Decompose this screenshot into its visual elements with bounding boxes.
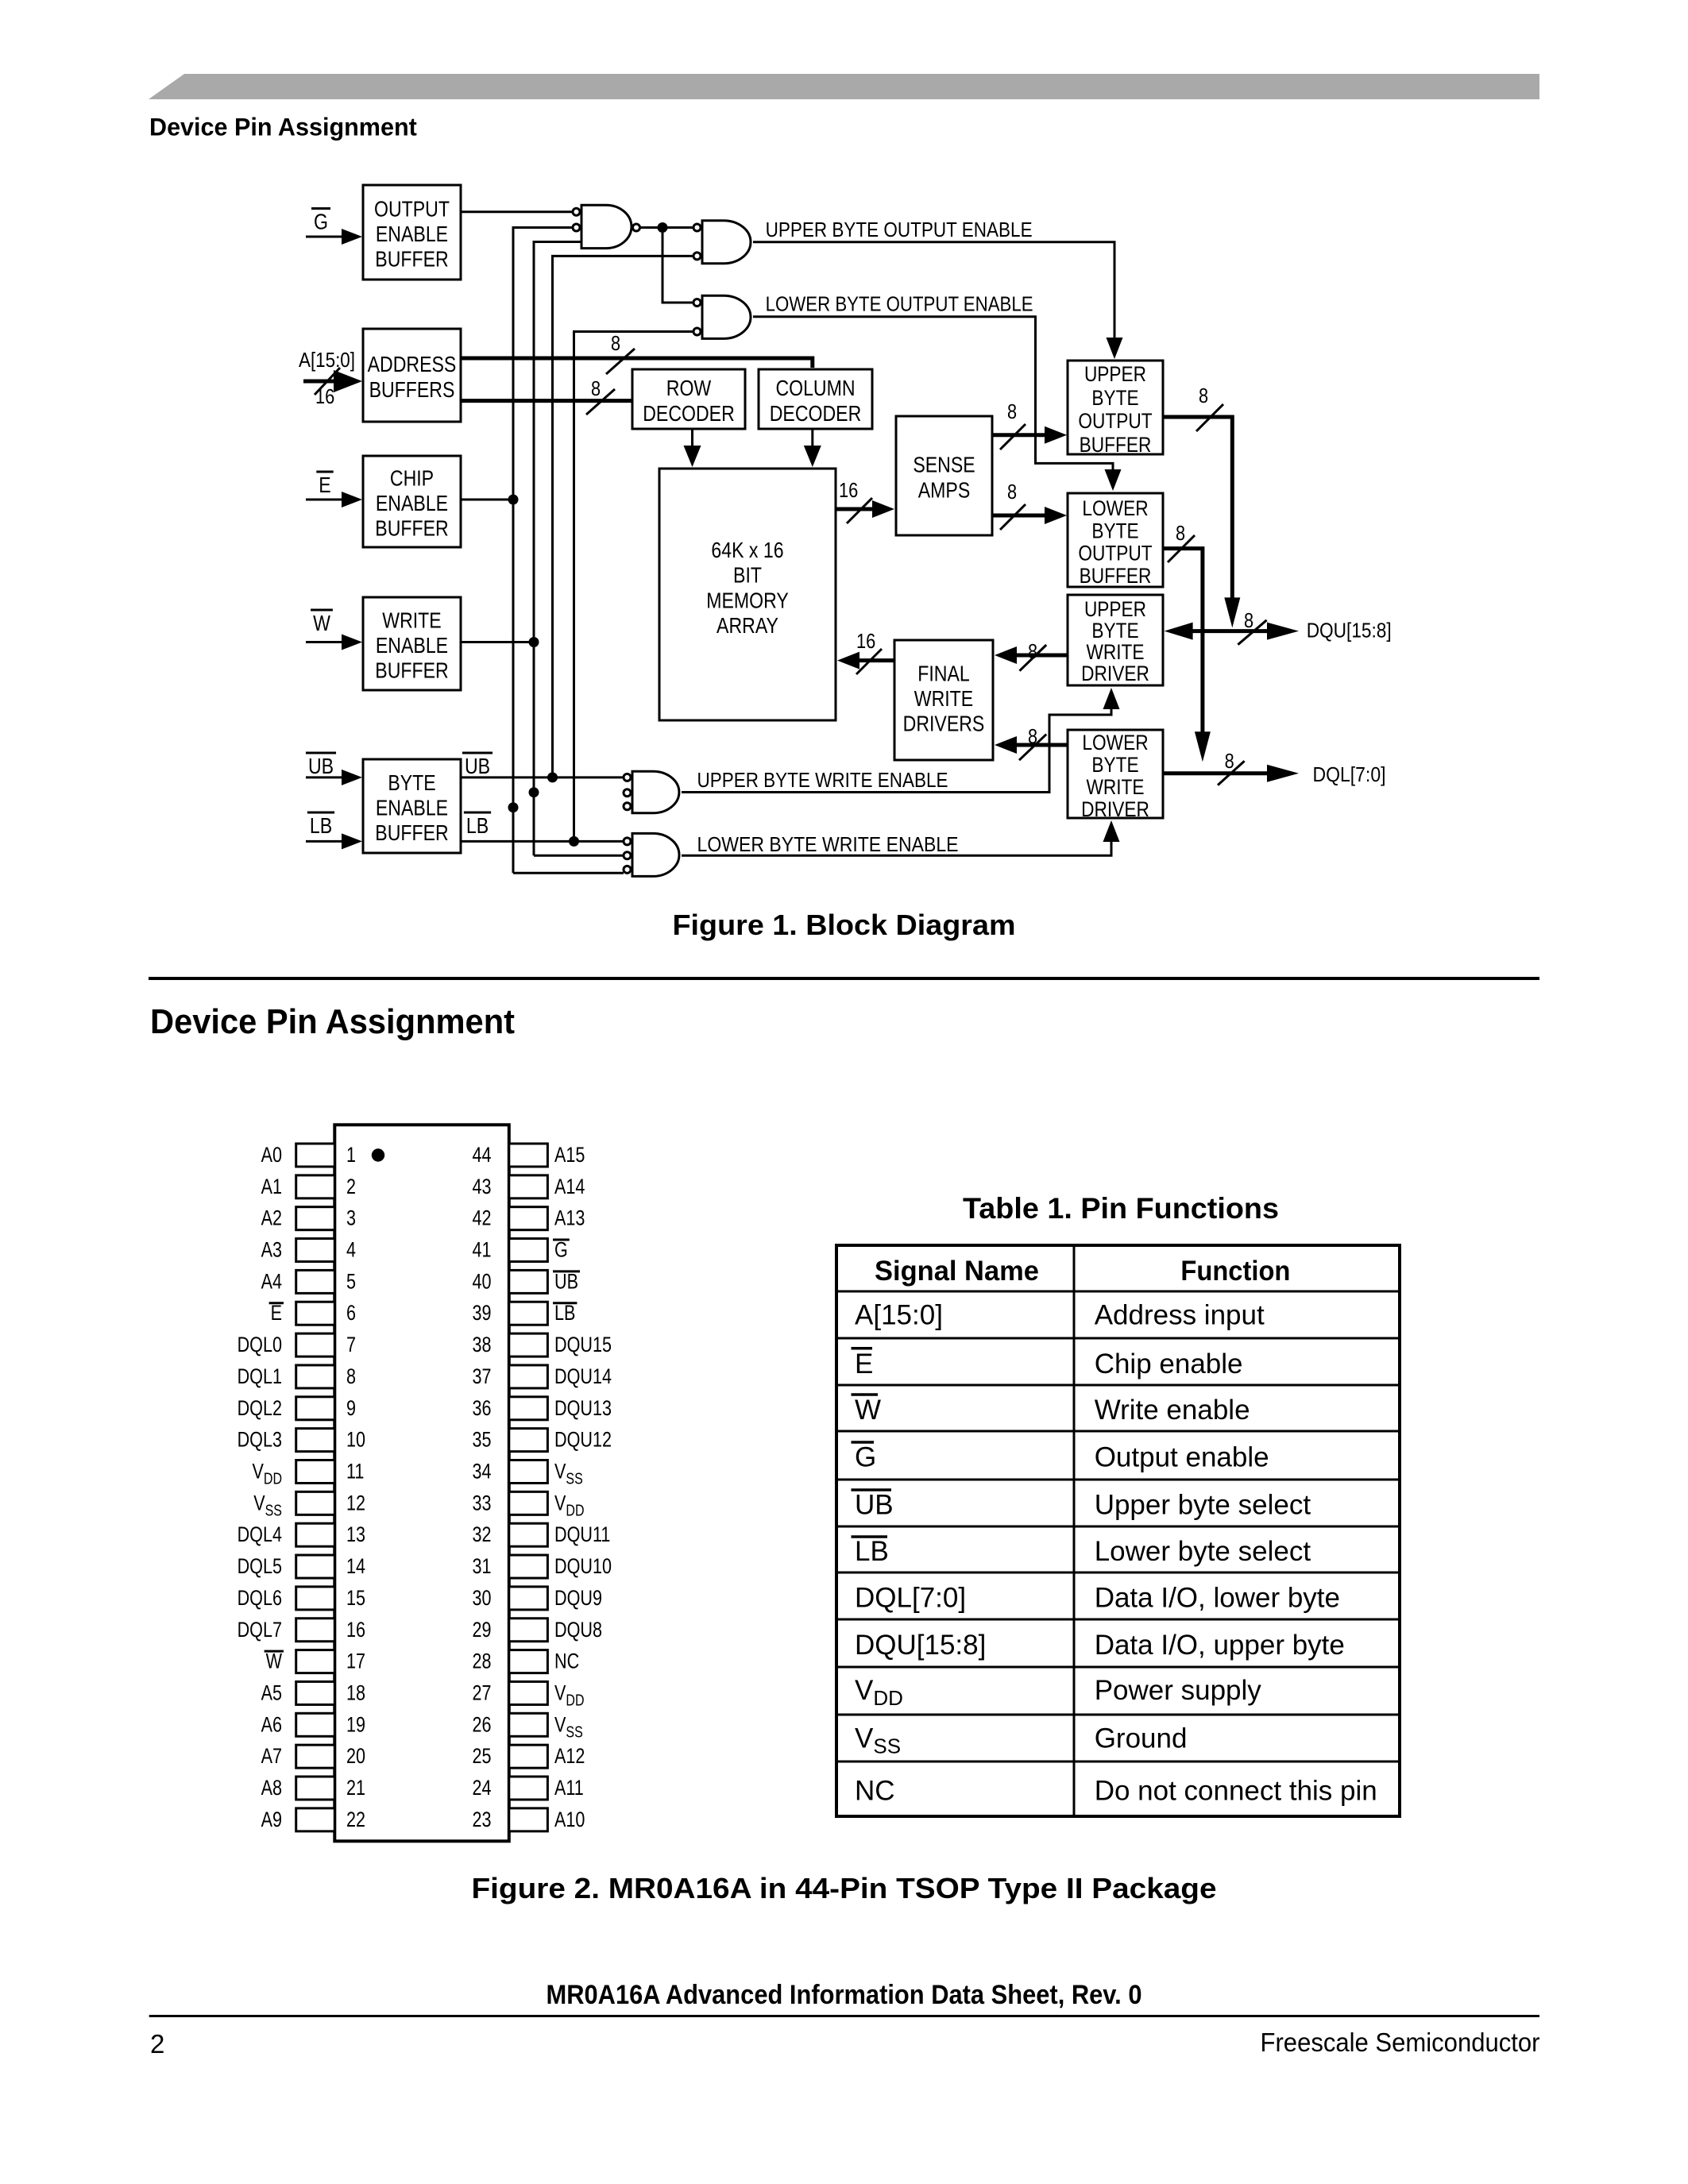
svg-text:A1: A1 [261,1175,282,1198]
svg-text:UB: UB [465,754,490,778]
svg-text:41: 41 [473,1238,492,1262]
svg-text:E: E [319,473,330,497]
svg-text:DQL6: DQL6 [238,1586,282,1610]
svg-text:DQL0: DQL0 [238,1333,282,1356]
svg-text:A5: A5 [261,1680,282,1704]
svg-text:A14: A14 [554,1175,585,1198]
svg-text:DQU11: DQU11 [554,1522,610,1546]
svg-text:Power supply: Power supply [1095,1675,1262,1706]
svg-text:Figure 2. MR0A16A in 44-Pin TS: Figure 2. MR0A16A in 44-Pin TSOP Type II… [472,1872,1217,1904]
svg-text:G: G [314,210,328,234]
svg-text:8: 8 [1244,608,1253,632]
svg-text:2: 2 [150,2029,164,2059]
svg-text:MEMORY: MEMORY [706,588,789,612]
svg-text:35: 35 [473,1428,492,1452]
svg-text:E: E [855,1349,873,1379]
svg-text:8: 8 [1007,480,1017,504]
svg-text:Device Pin Assignment: Device Pin Assignment [150,1002,515,1041]
svg-text:A6: A6 [261,1712,282,1736]
svg-text:40: 40 [473,1269,492,1293]
svg-text:Do not connect this pin: Do not connect this pin [1095,1776,1377,1807]
svg-text:BYTE: BYTE [1091,386,1138,410]
svg-text:BYTE: BYTE [388,770,435,795]
svg-text:G: G [554,1238,568,1262]
svg-text:W: W [855,1395,881,1426]
svg-text:WRITE: WRITE [914,686,973,711]
svg-text:A13: A13 [554,1206,585,1230]
svg-text:A0: A0 [261,1143,282,1167]
svg-text:8: 8 [1028,724,1037,748]
svg-text:LB: LB [310,813,332,838]
svg-text:W: W [313,611,330,635]
svg-text:ROW: ROW [666,376,712,400]
svg-text:BYTE: BYTE [1091,619,1138,642]
svg-text:13: 13 [346,1522,365,1546]
svg-text:A4: A4 [261,1269,282,1293]
svg-text:BYTE: BYTE [1091,753,1138,777]
svg-text:30: 30 [473,1586,492,1610]
svg-text:Ground: Ground [1095,1723,1188,1754]
svg-text:22: 22 [346,1808,365,1831]
svg-text:UPPER BYTE WRITE ENABLE: UPPER BYTE WRITE ENABLE [697,770,948,792]
svg-text:10: 10 [346,1428,365,1452]
svg-text:8: 8 [1199,384,1208,407]
svg-text:27: 27 [473,1680,492,1704]
svg-text:LB: LB [466,813,489,838]
svg-text:34: 34 [473,1460,492,1484]
svg-text:3: 3 [346,1206,356,1230]
svg-text:DQU[15:8]: DQU[15:8] [1307,619,1392,642]
svg-text:20: 20 [346,1744,365,1768]
svg-text:DQU14: DQU14 [554,1364,612,1388]
svg-text:16: 16 [346,1618,365,1642]
svg-text:Figure 1. Block Diagram: Figure 1. Block Diagram [673,909,1016,941]
svg-text:BIT: BIT [733,563,762,588]
svg-text:DRIVER: DRIVER [1081,662,1149,685]
svg-text:Table 1. Pin Functions: Table 1. Pin Functions [963,1191,1279,1225]
svg-text:E: E [271,1301,282,1325]
svg-text:WRITE: WRITE [1086,640,1144,664]
svg-text:24: 24 [473,1776,492,1800]
svg-text:Device Pin Assignment: Device Pin Assignment [149,113,417,141]
svg-text:Output enable: Output enable [1095,1442,1269,1473]
svg-text:CHIP: CHIP [390,465,434,490]
svg-text:14: 14 [346,1554,365,1578]
svg-text:16: 16 [856,629,875,653]
svg-text:WRITE: WRITE [1086,775,1144,799]
svg-text:ENABLE: ENABLE [376,796,448,820]
svg-text:17: 17 [346,1650,365,1673]
svg-text:12: 12 [346,1491,365,1515]
svg-text:DRIVER: DRIVER [1081,797,1149,821]
svg-text:A8: A8 [261,1776,282,1800]
svg-text:21: 21 [346,1776,365,1800]
svg-text:Data I/O, upper byte: Data I/O, upper byte [1095,1630,1345,1661]
svg-text:A15: A15 [554,1143,585,1167]
svg-text:A10: A10 [554,1808,585,1831]
svg-text:DECODER: DECODER [770,401,862,426]
svg-text:LOWER: LOWER [1082,496,1148,520]
svg-text:W: W [266,1650,283,1673]
svg-text:A[15:0]: A[15:0] [855,1300,943,1331]
svg-text:UPPER BYTE OUTPUT ENABLE: UPPER BYTE OUTPUT ENABLE [766,219,1033,241]
svg-text:2: 2 [346,1175,356,1198]
svg-text:DECODER: DECODER [643,401,735,426]
svg-text:8: 8 [1225,749,1234,773]
svg-text:A12: A12 [554,1744,585,1768]
svg-text:32: 32 [473,1522,492,1546]
svg-text:A11: A11 [554,1776,584,1800]
svg-text:DQU[15:8]: DQU[15:8] [855,1630,986,1661]
svg-text:ENABLE: ENABLE [376,222,448,246]
svg-text:8: 8 [591,376,601,400]
svg-text:LOWER BYTE OUTPUT ENABLE: LOWER BYTE OUTPUT ENABLE [766,294,1033,316]
svg-text:Address input: Address input [1095,1300,1265,1331]
svg-text:Write enable: Write enable [1095,1395,1250,1426]
svg-text:BUFFERS: BUFFERS [369,377,455,402]
svg-text:43: 43 [473,1175,492,1198]
svg-text:BUFFER: BUFFER [375,658,448,683]
svg-text:33: 33 [473,1491,492,1515]
svg-text:UPPER: UPPER [1084,597,1146,621]
svg-text:8: 8 [611,331,620,355]
svg-text:DQL[7:0]: DQL[7:0] [1313,762,1386,786]
svg-text:OUTPUT: OUTPUT [374,196,450,221]
svg-text:A7: A7 [261,1744,282,1768]
svg-text:SENSE: SENSE [913,453,975,477]
svg-text:DQU12: DQU12 [554,1428,612,1452]
svg-text:DRIVERS: DRIVERS [903,712,985,736]
svg-text:BUFFER: BUFFER [1080,564,1152,588]
svg-text:BUFFER: BUFFER [375,247,448,272]
svg-text:A[15:0]: A[15:0] [299,348,355,372]
svg-text:7: 7 [346,1333,356,1356]
svg-text:Lower byte select: Lower byte select [1095,1536,1311,1567]
svg-text:16: 16 [315,384,334,408]
svg-text:23: 23 [473,1808,492,1831]
svg-text:ENABLE: ENABLE [376,491,448,515]
svg-text:A9: A9 [261,1808,282,1831]
svg-text:26: 26 [473,1712,492,1736]
svg-text:8: 8 [1007,399,1017,423]
svg-text:39: 39 [473,1301,492,1325]
svg-text:42: 42 [473,1206,492,1230]
svg-text:G: G [855,1442,876,1473]
svg-text:OUTPUT: OUTPUT [1078,542,1152,565]
svg-text:DQL7: DQL7 [238,1618,282,1642]
svg-text:28: 28 [473,1650,492,1673]
svg-text:8: 8 [346,1364,356,1388]
svg-text:19: 19 [346,1712,365,1736]
svg-text:Freescale Semiconductor: Freescale Semiconductor [1261,2028,1540,2057]
svg-text:Function: Function [1180,1256,1290,1287]
svg-text:Data I/O, lower byte: Data I/O, lower byte [1095,1583,1340,1614]
svg-text:36: 36 [473,1396,492,1420]
svg-text:UB: UB [308,754,334,778]
svg-text:BUFFER: BUFFER [375,516,448,541]
svg-text:BYTE: BYTE [1091,519,1138,542]
svg-text:AMPS: AMPS [918,477,971,502]
svg-text:ENABLE: ENABLE [376,633,448,658]
svg-text:BUFFER: BUFFER [1080,433,1152,457]
svg-text:64K x 16: 64K x 16 [711,538,783,562]
svg-text:1: 1 [346,1143,356,1167]
svg-text:UPPER: UPPER [1084,362,1146,386]
svg-text:8: 8 [1028,639,1037,663]
svg-text:UB: UB [855,1490,894,1521]
svg-text:DQL[7:0]: DQL[7:0] [855,1583,966,1614]
svg-text:UB: UB [554,1269,578,1293]
svg-text:COLUMN: COLUMN [775,376,855,400]
svg-text:BUFFER: BUFFER [375,820,448,845]
svg-text:ARRAY: ARRAY [717,613,778,638]
svg-text:DQL3: DQL3 [238,1428,282,1452]
svg-text:DQL4: DQL4 [238,1522,282,1546]
svg-text:LOWER BYTE WRITE ENABLE: LOWER BYTE WRITE ENABLE [697,834,959,856]
svg-text:LB: LB [554,1301,575,1325]
svg-text:16: 16 [839,478,858,502]
svg-text:DQU9: DQU9 [554,1586,602,1610]
svg-text:ADDRESS: ADDRESS [368,352,457,376]
svg-text:DQU10: DQU10 [554,1554,612,1578]
svg-text:DQL5: DQL5 [238,1554,282,1578]
svg-text:25: 25 [473,1744,492,1768]
svg-text:Upper byte select: Upper byte select [1095,1490,1311,1521]
svg-text:Signal Name: Signal Name [875,1256,1039,1287]
svg-text:DQU13: DQU13 [554,1396,612,1420]
svg-text:DQL2: DQL2 [238,1396,282,1420]
svg-text:MR0A16A Advanced Information D: MR0A16A Advanced Information Data Sheet,… [547,1980,1142,2010]
svg-text:6: 6 [346,1301,356,1325]
svg-text:FINAL: FINAL [917,661,970,685]
svg-text:37: 37 [473,1364,492,1388]
svg-text:15: 15 [346,1586,365,1610]
svg-text:5: 5 [346,1269,356,1293]
svg-text:NC: NC [554,1650,579,1673]
svg-text:OUTPUT: OUTPUT [1078,409,1152,433]
svg-text:LB: LB [855,1536,889,1567]
svg-text:NC: NC [855,1776,895,1807]
svg-text:DQL1: DQL1 [238,1364,282,1388]
svg-text:29: 29 [473,1618,492,1642]
svg-text:31: 31 [473,1554,492,1578]
svg-text:18: 18 [346,1680,365,1704]
svg-text:A2: A2 [261,1206,282,1230]
svg-text:WRITE: WRITE [382,608,441,632]
svg-text:4: 4 [346,1238,356,1262]
svg-text:8: 8 [1176,521,1185,545]
svg-text:9: 9 [346,1396,356,1420]
svg-text:LOWER: LOWER [1082,731,1148,754]
svg-text:44: 44 [473,1143,492,1167]
svg-text:11: 11 [346,1460,364,1484]
svg-text:DQU8: DQU8 [554,1618,602,1642]
svg-text:38: 38 [473,1333,492,1356]
svg-text:A3: A3 [261,1238,282,1262]
svg-text:DQU15: DQU15 [554,1333,612,1356]
svg-text:Chip enable: Chip enable [1095,1349,1243,1379]
